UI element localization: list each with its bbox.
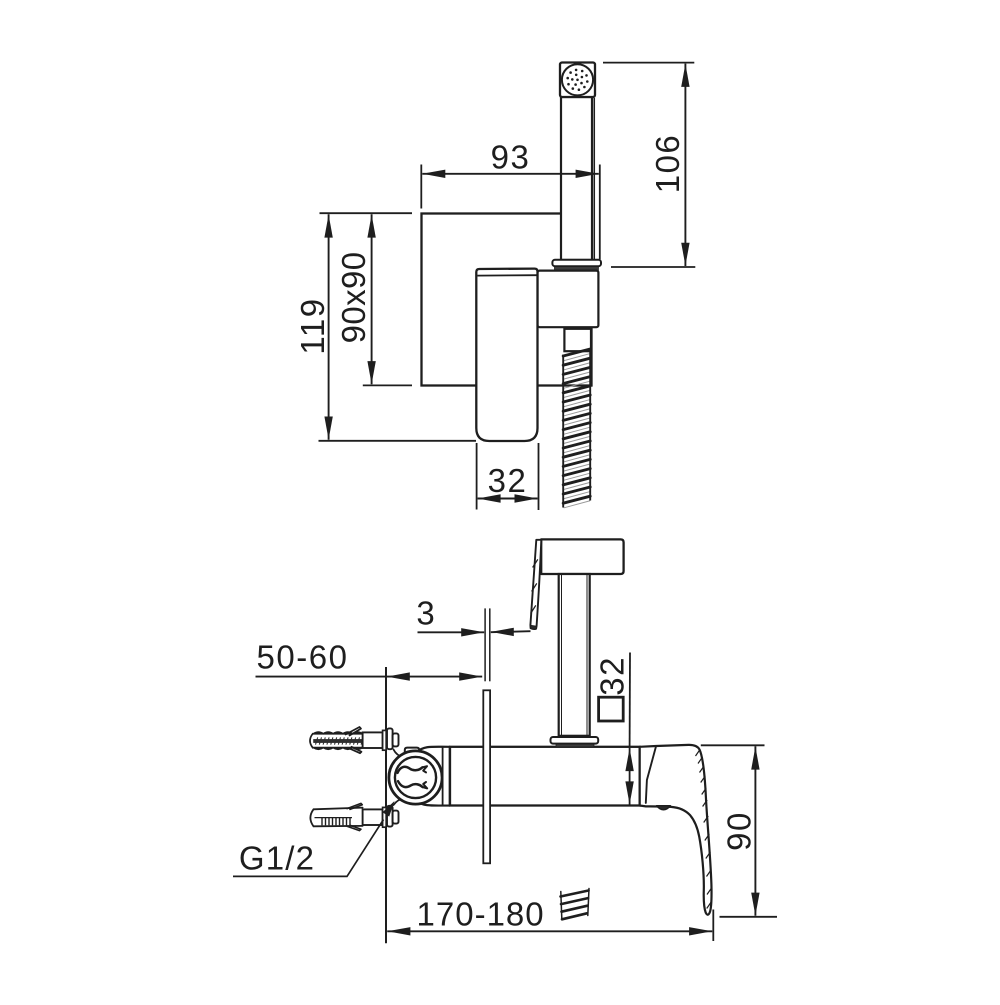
lower dowel mid split line	[315, 817, 353, 819]
upper screw shank	[363, 732, 383, 748]
lower screw nut (behind bracket)	[387, 806, 393, 827]
mixer lever handle (front)	[476, 269, 537, 441]
dim 170-180 line with arrows	[387, 930, 712, 932]
svg-text:32: 32	[594, 656, 631, 696]
wall plate 90x90 (top view)	[422, 214, 592, 386]
svg-text:50-60: 50-60	[257, 639, 349, 676]
dim 90 extension bottom	[720, 916, 778, 918]
cold water wave arrow	[398, 781, 423, 787]
upper screw nut (behind bracket)	[387, 728, 393, 749]
flange shadow band	[555, 267, 599, 271]
svg-text:3: 3	[416, 595, 436, 632]
pipe elbow to lower lug	[394, 798, 405, 805]
hose right boundary	[589, 349, 591, 501]
dim 119 line with arrows	[328, 214, 330, 439]
hose segment icon	[561, 891, 589, 920]
upper screw washer	[383, 730, 387, 750]
upper dowel expansion fins	[346, 727, 362, 736]
dim 3 right arrow	[491, 631, 531, 632]
dim 32 line with arrows	[478, 498, 538, 500]
dim 32 extension left	[476, 443, 478, 510]
dim 106 line with arrows	[684, 64, 686, 266]
lower screw washer	[383, 807, 387, 827]
lower dowel expansion fins	[347, 803, 362, 809]
dim 106 extension bottom	[611, 266, 695, 268]
top boss on valve	[405, 748, 419, 755]
dim 3 left arrow	[418, 631, 485, 633]
hose connection nub under body	[657, 806, 671, 810]
spray face circle	[562, 64, 593, 95]
upper screw head	[393, 733, 399, 746]
holder flange (side)	[551, 737, 599, 744]
hand shower head (side view)	[541, 539, 623, 574]
dim 170-180 extension right	[712, 910, 714, 942]
dim 93 extension line right	[599, 165, 601, 260]
dim 32 leader and arrows (body height)	[629, 653, 631, 748]
flexible hose (corrugated)	[563, 349, 590, 503]
lower wall plug (dowel)	[310, 808, 362, 827]
svg-text:119: 119	[294, 297, 331, 354]
dim 50-60 line with arrows	[256, 676, 483, 678]
end cap internal edge	[646, 746, 656, 803]
dim 32 extension right	[538, 443, 540, 510]
valve cartridge circle outer	[389, 751, 442, 804]
trigger shading ticks	[531, 560, 538, 613]
main body (horizontal cylinder)	[450, 747, 640, 806]
dim 106 extension top	[603, 62, 694, 64]
dim 93 extension line left	[420, 165, 422, 209]
dim 93 line with arrows	[422, 173, 599, 175]
dim 119 extension bottom	[319, 440, 477, 442]
mixer lever (side view)	[640, 745, 712, 915]
flange shadow band (side)	[556, 744, 594, 747]
svg-text:106: 106	[649, 134, 686, 194]
trigger end cap	[531, 625, 537, 629]
shower holder block	[538, 271, 599, 328]
upper dowel thread band	[314, 739, 364, 742]
tube inner edge lines	[561, 575, 563, 735]
dim 90x90 line with arrows	[371, 214, 373, 384]
holder flange	[552, 260, 601, 266]
G1/2 leader line with arrow	[233, 820, 384, 877]
upper wall plug (dowel)	[310, 732, 363, 749]
shower trigger lever (long strip)	[530, 540, 541, 629]
hot water wave arrow	[398, 767, 423, 773]
svg-text:32: 32	[488, 462, 528, 499]
dim 3 extension lines (escutcheon)	[484, 608, 486, 681]
hand shower tube (side, vertical)	[559, 574, 590, 736]
lower screw head	[393, 811, 399, 824]
lever shading ticks	[696, 750, 712, 909]
lever top chamfer line	[478, 274, 538, 276]
hand shower tube (vertical)	[561, 97, 592, 260]
dim 90 line with arrows	[754, 746, 756, 916]
tube edge highlight	[593, 98, 595, 259]
hose nipple	[564, 329, 591, 351]
svg-text:90: 90	[721, 811, 758, 851]
svg-text:93: 93	[491, 138, 531, 175]
dim 90 extension top	[701, 744, 765, 746]
pipe elbow to upper lug	[394, 750, 404, 758]
lower screw shank	[363, 809, 383, 825]
spray nozzle dots	[586, 80, 589, 83]
svg-text:G1/2: G1/2	[239, 839, 315, 876]
square section symbol	[599, 697, 624, 721]
valve cartridge circle inner	[395, 757, 436, 798]
dim 119 extension top	[320, 212, 413, 214]
dim 90x90 extension bottom	[363, 384, 412, 386]
wall bracket vertical line	[385, 667, 387, 943]
valve housing (behind circle)	[417, 747, 450, 806]
svg-text:90x90: 90x90	[335, 251, 372, 343]
escutcheon plate (edge-on)	[483, 690, 490, 863]
svg-text:170-180: 170-180	[417, 895, 545, 932]
hose left boundary	[562, 355, 564, 508]
housing joint lines	[442, 747, 444, 806]
lower dowel slots	[322, 818, 350, 826]
hand shower head (square) with face	[560, 63, 595, 98]
